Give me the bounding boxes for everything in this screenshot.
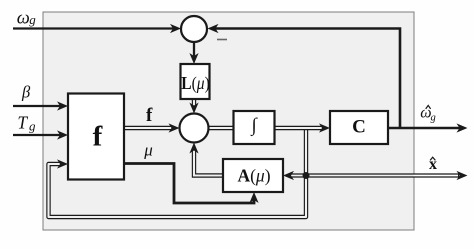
wire: sum2 to integrator double line bbox=[209, 126, 234, 130]
wire: mu path from f box to A(mu) bottom bbox=[124, 164, 254, 204]
svg-text:f: f bbox=[146, 105, 153, 126]
wire: Tg input bbox=[13, 134, 61, 136]
sum2 circle bbox=[180, 114, 209, 143]
wire: x-hat double line from A(mu) to output arrow bbox=[291, 173, 459, 177]
arrowhead x-hat output bbox=[457, 171, 468, 180]
wire: f output double line from f box to sum2 bbox=[124, 126, 172, 130]
block f bbox=[68, 94, 124, 180]
minus sign at sum1 bbox=[217, 39, 227, 41]
arrowhead into sum1 from left bbox=[170, 24, 181, 33]
wire: C output to omega-hat arrow bbox=[388, 127, 460, 129]
arrowhead into f left (feedback) bbox=[57, 159, 68, 168]
svg-text:T: T bbox=[17, 113, 28, 133]
svg-text:g: g bbox=[29, 12, 36, 27]
svg-text:C: C bbox=[352, 117, 366, 138]
wire: integrator to C double line bbox=[275, 126, 324, 130]
arrowhead into L(mu) top bbox=[189, 53, 198, 64]
arrowhead into C left bbox=[319, 123, 330, 132]
arrowhead into A(mu) right bbox=[283, 171, 294, 180]
block C bbox=[330, 111, 388, 144]
arrowhead into sum2 left bbox=[169, 123, 180, 132]
arrowhead beta into f bbox=[57, 101, 68, 110]
arrowhead into sum1 from right bbox=[208, 24, 219, 33]
svg-text:ω: ω bbox=[17, 8, 30, 28]
arrowhead into A(mu) bottom bbox=[249, 192, 258, 203]
svg-text:g: g bbox=[29, 119, 36, 134]
wire: top feedback line from C output up and left to sum1 bbox=[215, 29, 400, 128]
block integrator bbox=[234, 111, 275, 144]
label omega_g bbox=[17, 8, 36, 28]
svg-text:g: g bbox=[431, 112, 436, 123]
junction dot on x-hat line bbox=[303, 172, 310, 179]
wire: sum1 down to L(mu) bbox=[193, 42, 195, 57]
svg-text:L(μ): L(μ) bbox=[181, 73, 210, 93]
arrowhead into sum2 top bbox=[189, 103, 198, 114]
wire: omega_g input line bbox=[13, 27, 174, 29]
panel background bbox=[43, 12, 414, 230]
arrowhead into sum2 bottom bbox=[189, 143, 198, 154]
svg-text:β: β bbox=[21, 83, 31, 102]
svg-text:A(μ): A(μ) bbox=[237, 166, 270, 186]
block L(mu) bbox=[181, 64, 210, 99]
wire: beta input bbox=[13, 105, 61, 107]
svg-text:μ: μ bbox=[143, 141, 153, 160]
label Tg bbox=[17, 113, 36, 134]
arrowhead Tg into f bbox=[57, 130, 68, 139]
label x-hat output bbox=[429, 156, 437, 173]
svg-text:f: f bbox=[93, 120, 103, 152]
wire: L(mu) output double line down to sum2 bbox=[192, 99, 196, 107]
wire: x-hat feedback loop double line (down x=306, bottom, left up x=48.5, into f) bbox=[49, 129, 307, 217]
arrowhead omega-hat output bbox=[457, 123, 468, 132]
wire: A(mu) output double line left and up into sum2 bbox=[194, 150, 223, 176]
block A(mu) bbox=[223, 159, 283, 192]
label omega-hat_g output bbox=[420, 105, 435, 124]
sum1 circle bbox=[181, 16, 207, 42]
